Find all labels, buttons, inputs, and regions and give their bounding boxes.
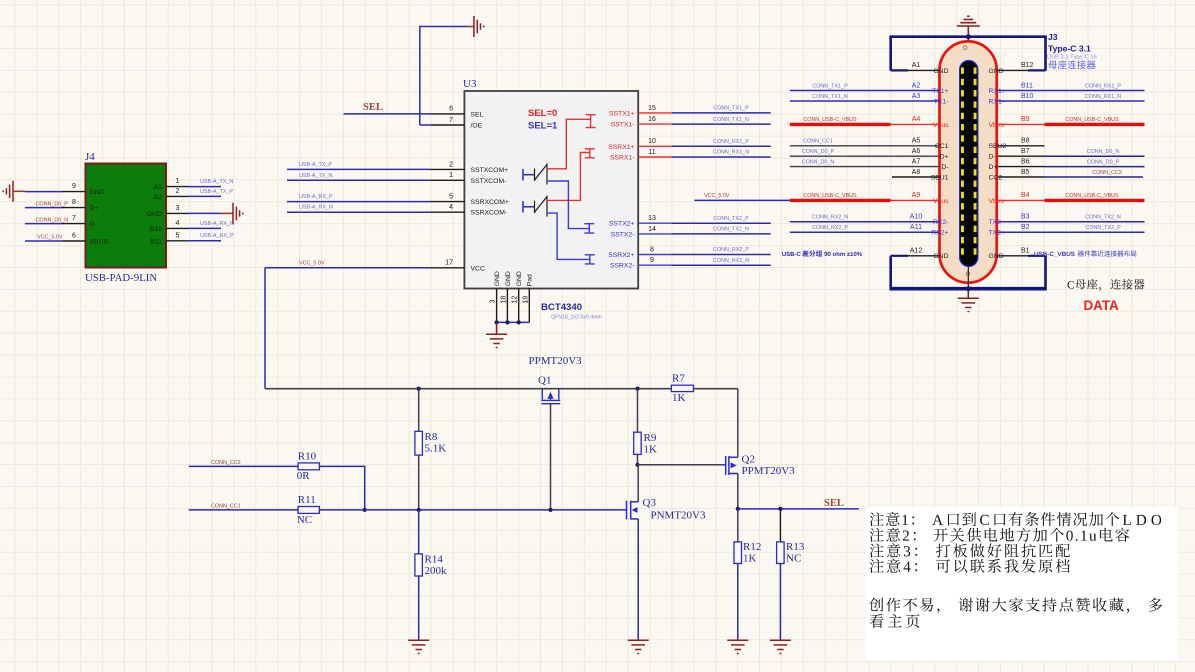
svg-text:19: 19 (522, 296, 529, 304)
resistor R13 (777, 542, 785, 564)
wire CONN_RX1_P (672, 145, 771, 147)
svg-text:B10: B10 (150, 226, 162, 233)
pin 5 of J4 (166, 240, 188, 242)
wire Q2 down to SEL row (737, 474, 739, 509)
svg-text:GND: GND (989, 68, 1004, 75)
svg-text:CONN_TX2_N: CONN_TX2_N (713, 227, 749, 233)
pin 3 of J4 (166, 212, 188, 214)
svg-text:/OE: /OE (471, 123, 483, 130)
resistor R8 (415, 431, 423, 455)
notes panel background (866, 507, 1178, 661)
svg-text:1: 1 (449, 172, 453, 179)
svg-text:R13: R13 (786, 541, 805, 553)
svg-text:A9: A9 (912, 192, 921, 199)
svg-text:R7: R7 (672, 373, 685, 385)
wire shell to tongue top (967, 37, 969, 61)
svg-text:CONN_RX1_N: CONN_RX1_N (1085, 94, 1121, 100)
pin A12 of J3 (908, 255, 940, 257)
wire J4 pin 3 (188, 212, 222, 214)
wire CONN_D0_P from B6 (998, 166, 1045, 168)
svg-text:CONN_TX2_P: CONN_TX2_P (1085, 225, 1121, 231)
pin A1 of J3 (908, 69, 940, 71)
wire R9 bottom (637, 454, 639, 464)
wire R9 top (637, 389, 639, 433)
junction dot rail at R8 (417, 387, 421, 391)
capsule bottom marker (966, 272, 970, 276)
ground symbol top-left rotated (468, 26, 474, 28)
svg-text:USB-A_RX_N: USB-A_RX_N (299, 205, 333, 211)
svg-text:9: 9 (650, 257, 654, 264)
svg-text:SSTX2+: SSTX2+ (609, 221, 635, 228)
capsule top marker (963, 46, 967, 50)
junction dot R10 branch (363, 508, 367, 512)
svg-text:A1: A1 (912, 62, 921, 69)
svg-text:R14: R14 (425, 553, 444, 565)
wire USB-A_TX_N to U3 pin 1 (287, 179, 430, 181)
junction dot R9 bottom (635, 463, 639, 467)
svg-text:USB-PAD-9LIN: USB-PAD-9LIN (85, 272, 157, 284)
svg-text:CONN_USB-C_VBUS: CONN_USB-C_VBUS (1065, 117, 1119, 123)
pin B8 of J3 (998, 145, 1045, 147)
junction dot rail at R9 (635, 387, 639, 391)
wire CONN_D0_P to A6 (790, 155, 940, 157)
wire joining U3 GND pins (497, 321, 530, 323)
junction dot on J3 bottom shell (966, 286, 971, 291)
wire R13 top (779, 509, 781, 542)
svg-text:SSRXCOM-: SSRXCOM- (471, 210, 508, 217)
note line 2 (870, 528, 1130, 542)
svg-text:SEL=1: SEL=1 (528, 121, 558, 132)
svg-text:B3: B3 (1021, 214, 1030, 221)
svg-text:4: 4 (176, 220, 180, 227)
switch symbol B inside U3 (523, 201, 535, 212)
svg-text:5.1K: 5.1K (425, 443, 447, 455)
wire CONN_TX2_N from B3 (998, 221, 1145, 223)
wire rail down to Q2 (737, 389, 739, 458)
resistor R14 (415, 554, 423, 576)
wire VCC_5.0V to U3 pin 17 (265, 267, 430, 269)
thick wire CONN_USB-C_VBUS to A9 (790, 199, 891, 202)
J3 top shell bracket (891, 37, 1046, 71)
svg-text:SSRXCOM+: SSRXCOM+ (471, 199, 509, 206)
pin B12 of J3 (997, 69, 1028, 71)
svg-text:TX1-: TX1- (934, 98, 949, 105)
svg-text:D-: D- (90, 221, 97, 228)
svg-text:CONN_USB-C_VBUS: CONN_USB-C_VBUS (803, 117, 857, 123)
svg-text:SEL=0: SEL=0 (528, 108, 557, 119)
wire R13 to ground (779, 564, 781, 641)
pin 17 of U3 VCC (430, 267, 465, 269)
wire USB-A_RX_P to U3 pin 5 (287, 201, 430, 203)
svg-text:A10: A10 (910, 214, 923, 221)
U3 pin names left (471, 111, 509, 272)
internal red wire to SSRX1 (547, 149, 595, 201)
svg-text:CONN_D0_P: CONN_D0_P (36, 201, 69, 207)
svg-text:A5: A5 (912, 138, 921, 145)
wire R12 to ground (737, 564, 739, 641)
wire USB-A_RX_N to U3 pin 4 (287, 211, 430, 213)
ground symbol under R13 (770, 640, 791, 653)
svg-text:CONN_TX1_P: CONN_TX1_P (713, 106, 749, 112)
wire CONN_TX1_N to A3 (790, 100, 940, 102)
svg-text:TX1+: TX1+ (932, 88, 948, 95)
svg-text:SEL: SEL (471, 111, 484, 118)
svg-text:VCC: VCC (471, 265, 485, 272)
tongue contact pads (961, 68, 977, 255)
svg-text:B11: B11 (1021, 82, 1033, 89)
svg-text:QFN18_2x2.5x0.4mm: QFN18_2x2.5x0.4mm (551, 315, 602, 321)
wire CONN_RX2_P (672, 254, 771, 256)
pin 4 of U3 (430, 211, 465, 213)
pin 7 of U3 /OE (431, 124, 464, 126)
wire VCC vertical from U3 pin 17 (264, 268, 266, 389)
svg-text:11: 11 (648, 149, 655, 156)
J4 pin names left (90, 189, 109, 246)
wire R10 to R11 row (319, 466, 364, 510)
svg-text:VBUS: VBUS (90, 239, 109, 246)
svg-text:SSTX1-: SSTX1- (611, 122, 635, 129)
svg-text:CONN_D0_N: CONN_D0_N (802, 159, 835, 165)
wire SEL to U3 pin 6 (344, 113, 432, 115)
J3 bottom shell bracket (891, 256, 1046, 287)
wire J4 pin 1 (188, 186, 222, 188)
svg-text:2: 2 (176, 188, 180, 195)
svg-text:CONN_RX2_P: CONN_RX2_P (812, 225, 848, 231)
svg-text:USB-A_RX_P: USB-A_RX_P (200, 233, 234, 239)
junction dot on J3 top shell (966, 34, 971, 39)
wire Q1 drain down (550, 404, 552, 510)
ground symbol at J4 pin 9 (3, 181, 13, 202)
svg-text:9: 9 (72, 183, 76, 190)
svg-text:B12: B12 (1021, 62, 1034, 69)
svg-text:SBU1: SBU1 (931, 174, 949, 181)
ground symbol under U3 (496, 322, 498, 334)
thick wire CONN_USB-C_VBUS from B4 (998, 199, 1045, 201)
switch symbol A inside U3 (523, 169, 535, 180)
wire J4 pin 5 (188, 240, 222, 242)
svg-text:GND: GND (933, 68, 948, 75)
svg-text:TX2-: TX2- (989, 219, 1004, 226)
ground symbol below J3 (967, 290, 969, 298)
svg-text:GND: GND (516, 271, 523, 286)
svg-text:RX1+: RX1+ (989, 88, 1006, 95)
wire CONN_RX1_N from B10 (998, 100, 1145, 102)
svg-text:PPMT20V3: PPMT20V3 (529, 355, 583, 367)
svg-text:CONN_D0_N: CONN_D0_N (1087, 149, 1120, 155)
svg-text:CONN_RX1_N: CONN_RX1_N (713, 150, 749, 156)
svg-text:4: 4 (449, 204, 453, 211)
svg-text:Vbus: Vbus (933, 198, 949, 205)
wire CONN_TX1_P to A2 (790, 90, 940, 92)
pin 1 of J4 (166, 186, 188, 188)
pin 5 of U3 (430, 201, 465, 203)
wire CONN_RX1_N (672, 156, 771, 158)
svg-text:1K: 1K (644, 443, 658, 455)
wire R14 to ground (418, 576, 420, 640)
wire CONN_RX2_N to A10 (790, 221, 940, 223)
wire SEL row (738, 508, 859, 510)
svg-text:GND: GND (494, 271, 501, 286)
svg-text:VCC_5.0V: VCC_5.0V (704, 193, 730, 199)
wire /OE to ground (420, 27, 468, 126)
pin 2 of U3 (430, 168, 465, 170)
junction dot SEL at Q2 (736, 507, 740, 511)
svg-text:B8: B8 (1021, 138, 1030, 145)
ground symbol under Q3 (628, 640, 649, 653)
svg-text:B9: B9 (1021, 116, 1030, 123)
wire CONN_RX1_P from B11 (998, 90, 1145, 92)
transistor Q3 PNMT20V3 (620, 501, 638, 520)
svg-text:Vbus: Vbus (989, 198, 1005, 205)
svg-text:A4: A4 (912, 116, 921, 123)
svg-text:B10: B10 (1021, 93, 1034, 100)
svg-text:17: 17 (445, 260, 453, 267)
svg-text:SSTX1+: SSTX1+ (609, 110, 635, 117)
svg-text:3: 3 (176, 205, 180, 212)
pin 9 of U3 (638, 264, 672, 266)
svg-text:CONN_CC1: CONN_CC1 (211, 503, 241, 509)
svg-text:CONN_TX1_N: CONN_TX1_N (713, 117, 749, 123)
wire R8 bottom (418, 455, 420, 510)
svg-text:10: 10 (648, 138, 656, 145)
pin 6 of J4 (63, 240, 86, 242)
svg-text:CONN_D0_P: CONN_D0_P (802, 149, 835, 155)
svg-text:CONN_D0_P: CONN_D0_P (1087, 159, 1120, 165)
wire CONN_RX2_P to A11 (790, 231, 940, 233)
wire Q3 drain to R9 (637, 465, 639, 502)
svg-text:RX2-: RX2- (933, 219, 949, 226)
svg-text:R9: R9 (644, 432, 657, 444)
J3 connector capsule body (940, 41, 997, 282)
junction dots on U3 GND wire (495, 320, 499, 324)
svg-text:7: 7 (72, 215, 76, 222)
svg-text:BCT4340: BCT4340 (541, 302, 582, 313)
svg-text:CONN_RX2_P: CONN_RX2_P (713, 247, 749, 253)
svg-text:Q3: Q3 (643, 497, 657, 509)
pin 15 of U3 (638, 112, 672, 114)
svg-text:SBU2: SBU2 (989, 143, 1007, 150)
pin 13 of U3 (638, 222, 672, 224)
svg-text:GND: GND (90, 189, 105, 196)
svg-text:B5: B5 (1021, 169, 1030, 176)
svg-text:D+: D+ (90, 205, 99, 212)
svg-text:15: 15 (648, 105, 656, 112)
note USB-C differential pair (782, 252, 800, 256)
wire top power rail (265, 388, 738, 390)
svg-text:8: 8 (72, 199, 76, 206)
J3 note mu zuo lian jie qi (1049, 60, 1096, 69)
svg-text:7: 7 (449, 117, 453, 124)
svg-text:B1: B1 (1021, 248, 1030, 255)
transistor Q2 PPMT20V3 (722, 456, 738, 475)
wire CONN_CC2 from B5 (998, 176, 1045, 178)
pin 9 of J4 (63, 191, 86, 193)
svg-text:16: 16 (648, 116, 656, 123)
svg-text:5: 5 (176, 232, 180, 239)
wire Q3 source to ground (637, 519, 639, 640)
svg-text:A3: A3 (912, 93, 921, 100)
wire VCC_5.0V to A9 (694, 199, 789, 201)
svg-text:200k: 200k (425, 565, 448, 577)
note USB-C_VBUS placement (1034, 252, 1074, 257)
svg-text:6: 6 (449, 106, 453, 113)
resistor R11 (298, 507, 319, 514)
svg-text:D+: D+ (940, 154, 949, 161)
svg-text:CONN_TX2_P: CONN_TX2_P (713, 216, 749, 222)
svg-text:R10: R10 (298, 450, 317, 462)
wire CONN_TX2_P (672, 222, 771, 224)
wire CONN_D0_N to J4 pin 7 (25, 223, 63, 225)
wire J4 pin 4 (188, 227, 222, 229)
pin 6 of U3 SEL (431, 113, 464, 115)
svg-text:CONN_CC2: CONN_CC2 (1092, 170, 1122, 176)
svg-text:NC: NC (786, 553, 801, 565)
wire J4 pin 9 GND (25, 191, 63, 193)
svg-text:18: 18 (500, 296, 507, 304)
thick wire CONN_USB-C_VBUS from B9 (998, 123, 1045, 125)
svg-text:A6: A6 (912, 148, 921, 155)
svg-text:USB-A_TX_P: USB-A_TX_P (299, 162, 332, 168)
J3 connector tongue (960, 61, 978, 267)
svg-text:8: 8 (650, 246, 654, 253)
internal red wire to SSTX1 (547, 115, 596, 169)
svg-text:TX2+: TX2+ (989, 230, 1005, 237)
resistor R9 (634, 432, 642, 454)
wire R9 to Q2 gate (638, 464, 722, 466)
svg-text:CONN_CC2: CONN_CC2 (211, 460, 241, 466)
pin 10 of U3 (638, 145, 672, 147)
wire R8 top (418, 389, 420, 432)
wire tongue bottom to shell (967, 267, 969, 288)
pin 14 of U3 (638, 233, 672, 235)
wire CONN_TX2_P from B2 (998, 231, 1145, 233)
svg-text:CONN_TX1_P: CONN_TX1_P (812, 83, 848, 89)
IC U3 body BCT4340 (464, 91, 638, 289)
ground symbol above J3 (957, 16, 980, 26)
U3 bottom GND pins (496, 289, 498, 323)
svg-text:CONN_TX1_N: CONN_TX1_N (812, 94, 848, 100)
wire CC1 row to Q3 gate (319, 509, 620, 511)
wire R12 top (737, 509, 739, 542)
U3 pin names right blue (608, 221, 634, 270)
pin 16 of U3 (638, 123, 672, 125)
svg-text:SSRX2-: SSRX2- (610, 263, 635, 270)
svg-text:RX2+: RX2+ (931, 230, 948, 237)
svg-text:GND: GND (505, 271, 512, 286)
svg-text:SSRX2+: SSRX2+ (608, 252, 634, 259)
svg-text:12: 12 (512, 296, 519, 304)
svg-text:SSRX1-: SSRX1- (610, 155, 635, 162)
connector J4 body (86, 164, 167, 268)
svg-text:A7: A7 (912, 158, 921, 165)
svg-text:CONN_TX2_N: CONN_TX2_N (1085, 215, 1121, 221)
svg-text:0R: 0R (297, 470, 311, 482)
svg-text:A12: A12 (910, 248, 923, 255)
svg-text:CONN_RX1_P: CONN_RX1_P (1085, 83, 1121, 89)
wire CONN_RX2_N (672, 264, 771, 266)
svg-text:USB-A_TX_N: USB-A_TX_N (200, 179, 233, 185)
svg-text:USB-A_RX_P: USB-A_RX_P (299, 194, 333, 200)
wire CONN_TX1_P (672, 112, 771, 114)
note line 1 (870, 512, 1162, 526)
pin 2 of J4 (166, 195, 188, 197)
internal blue wire to SSRX2 (547, 213, 595, 264)
pin A8 of J3 (892, 176, 940, 178)
pin 8 of U3 (638, 254, 672, 256)
svg-text:D+: D+ (989, 164, 998, 171)
svg-text:A3: A3 (154, 184, 163, 191)
svg-text:B2: B2 (1021, 224, 1030, 231)
svg-text:B6: B6 (1021, 158, 1030, 165)
note line 4 (870, 559, 1070, 573)
svg-text:A2: A2 (154, 194, 163, 201)
svg-text:NC: NC (297, 514, 312, 526)
junction dot SEL at R13 (778, 507, 782, 511)
svg-text:CONN_RX1_P: CONN_RX1_P (713, 139, 749, 145)
wire J4 pin 2 (188, 195, 222, 197)
svg-text:Q1: Q1 (538, 375, 551, 387)
svg-text:VCC_5.0V: VCC_5.0V (37, 235, 63, 241)
svg-text:D-: D- (941, 164, 948, 171)
svg-text:R12: R12 (743, 541, 761, 553)
svg-text:GND: GND (933, 253, 948, 260)
svg-text:USB-A_TX_P: USB-A_TX_P (200, 189, 233, 195)
svg-text:VCC_5.0V: VCC_5.0V (299, 260, 325, 266)
transistor Q1 PPMT20V3 (541, 389, 560, 403)
pin 8 of J4 (63, 207, 86, 209)
svg-text:SSRX1+: SSRX1+ (608, 144, 634, 151)
svg-text:CONN_CC1: CONN_CC1 (803, 139, 833, 145)
svg-text:SEL: SEL (824, 498, 844, 509)
svg-text:1: 1 (176, 178, 180, 185)
svg-text:A11: A11 (910, 224, 922, 231)
svg-text:J3: J3 (1048, 32, 1058, 42)
svg-text:R11: R11 (298, 494, 316, 506)
svg-text:Vbus: Vbus (933, 122, 949, 129)
junction dot CC1 row at Q1 (548, 508, 552, 512)
wire R14 top (418, 510, 420, 554)
wire CONN_TX2_N (672, 233, 771, 235)
thick wire CONN_USB-C_VBUS to A4 (790, 123, 891, 126)
svg-text:CONN_USB-C_VBUS: CONN_USB-C_VBUS (803, 193, 857, 199)
svg-text:SSTXCOM+: SSTXCOM+ (471, 167, 509, 174)
svg-text:GND: GND (147, 211, 162, 218)
svg-text:2: 2 (449, 161, 453, 168)
svg-text:14: 14 (648, 226, 656, 233)
svg-text:USB-A_TX_N: USB-A_TX_N (299, 173, 332, 179)
ground symbol under R14 (408, 640, 429, 653)
svg-text:Pad: Pad (527, 274, 534, 286)
note line 5 (869, 598, 1162, 614)
svg-text:SSTXCOM-: SSTXCOM- (471, 178, 507, 185)
pin B1 of J3 (997, 255, 1028, 257)
U3 pin names right red (608, 110, 634, 161)
svg-text:CONN_USB-C_VBUS: CONN_USB-C_VBUS (1065, 193, 1119, 199)
resistor R7 (671, 385, 693, 391)
svg-text:1K: 1K (672, 392, 686, 404)
wire CONN_D0_P to J4 pin 8 (25, 207, 63, 209)
svg-text:USB-A_RX_N: USB-A_RX_N (200, 221, 234, 227)
svg-text:U3: U3 (463, 78, 477, 90)
svg-text:SSTX2-: SSTX2- (611, 231, 635, 238)
svg-text:USB 3.1 Type-C 16: USB 3.1 Type-C 16 (1047, 55, 1097, 61)
pin 4 of J4 (166, 227, 188, 229)
pin 11 of U3 (638, 156, 672, 158)
note line 3 (870, 543, 1070, 557)
svg-text:B7: B7 (1021, 148, 1030, 155)
wire CONN_TX1_N (672, 123, 771, 125)
resistor R10 (298, 463, 319, 470)
